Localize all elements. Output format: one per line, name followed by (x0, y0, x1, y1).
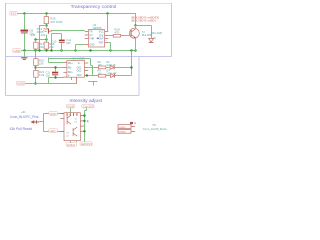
wire C8 top lead (24, 14, 26, 30)
wire top label B lead (85, 108, 87, 142)
node bus y120.9 (83, 120, 85, 122)
svg-text:1k5: 1k5 (97, 63, 102, 67)
svg-text:(BUL38D-E-xxBD): (BUL38D-E-xxBD) (131, 18, 156, 22)
label JP2 conn (143, 127, 167, 131)
label R17 value top (31, 33, 36, 37)
svg-text:V-: V- (68, 76, 70, 78)
label R18 value top (41, 33, 46, 37)
node x35 y67.5 (34, 66, 36, 68)
wire ground rail (21, 50, 136, 52)
wire output drop to middle (131, 51, 133, 68)
svg-text:Transparency control: Transparency control (71, 4, 117, 10)
svg-text:Conn_BLK/PC_Pins: Conn_BLK/PC_Pins (10, 115, 39, 119)
Q1 right pins (80, 116, 84, 132)
resistor R21 (34, 70, 38, 77)
wire R16 bottom lead (46, 24, 48, 26)
wire Q1 bottom lead B (76, 141, 78, 143)
node gnd x39 (38, 49, 40, 51)
wire DIS to R19 (108, 35, 113, 37)
supply label 3V3 (10, 11, 17, 15)
resistor R17 (34, 42, 38, 49)
node x35 y83.5 (34, 82, 36, 84)
wire IN2 link (49, 78, 64, 84)
node x35.5 y39.5 (34, 38, 36, 40)
diode D2 (110, 66, 114, 70)
svg-text:GND: GND (67, 104, 75, 108)
label C10 name (52, 39, 57, 43)
svg-text:D1: D1 (75, 121, 77, 123)
wire loop left drop (49, 58, 64, 63)
diode D4 (111, 73, 117, 78)
wire loop top (49, 58, 91, 60)
resistor R16 (44, 17, 48, 24)
svg-text:IN1+: IN1+ (68, 63, 74, 65)
IC1 bottom pins (72, 77, 77, 83)
wire junction to opamp IN (36, 67, 64, 69)
label C8 (29, 29, 34, 36)
svg-text:BUL38D: BUL38D (142, 33, 152, 37)
wire R9 to D4 (106, 75, 111, 77)
svg-text:470: 470 (114, 31, 119, 35)
title Transparency control (71, 4, 117, 10)
node x46 y25.5 (45, 24, 47, 26)
svg-text:VCC: VCC (99, 32, 104, 34)
red attribute text line2 (131, 18, 156, 22)
node x86.9 y75.5 (86, 74, 88, 76)
wire R18 bottom lead (46, 49, 48, 51)
wire under IC link (88, 82, 97, 86)
Q1 inner marks (67, 115, 77, 136)
node bus y131.3 (83, 130, 85, 132)
svg-text:IN2+: IN2+ (68, 72, 74, 74)
blue net text pull res (10, 127, 32, 131)
label T2 (142, 30, 152, 37)
connector JP2 (118, 122, 135, 133)
wire C10 bottom lead (61, 43, 63, 51)
svg-text:DIS: DIS (99, 36, 103, 38)
IC U2 left pins (85, 32, 89, 45)
frame middle section (6, 57, 140, 96)
svg-text:NE555: NE555 (93, 26, 102, 30)
node x55 y77.5b (54, 76, 56, 78)
wire Q1 bottom lead A (70, 141, 72, 143)
label PC1 (37, 27, 44, 34)
node x131 y67.5 (130, 66, 132, 68)
resistor R19 (113, 34, 120, 37)
wire GND label to Q box (58, 113, 65, 115)
svg-text:1k5: 1k5 (97, 71, 102, 75)
node rail x107 (106, 12, 108, 14)
svg-text:GND: GND (50, 112, 58, 116)
node gnd x75 (74, 49, 76, 51)
label R19 (114, 28, 120, 35)
wire riser to GND label (44, 113, 49, 115)
resistor R18 (44, 42, 48, 49)
svg-text:TR: TR (89, 32, 92, 34)
capacitor C11 (52, 72, 58, 76)
wire D4 to riser (115, 75, 132, 77)
svg-text:RST: RST (99, 43, 104, 45)
node bus y115.6 (83, 114, 85, 116)
svg-text:Intensity adjust: Intensity adjust (69, 98, 102, 104)
node gnd x24 (23, 49, 25, 51)
node rail x24 (23, 12, 25, 14)
label JP2 pin texts (119, 127, 126, 134)
svg-text:C10: C10 (52, 39, 57, 43)
red attribute text line1 (131, 15, 159, 19)
svg-text:22k: 22k (39, 61, 44, 65)
svg-text:GND: GND (89, 45, 94, 47)
wire OUT2 to R9 (87, 75, 99, 77)
label JP2 7W (152, 124, 156, 127)
wire R20 bottom lead (35, 66, 37, 71)
teal label JD (21, 110, 26, 114)
Q1 top pin marks (67, 113, 78, 116)
label C11 (46, 70, 51, 77)
capacitor C10 (59, 40, 65, 43)
blue crossref OUT (104, 38, 107, 42)
wire junction to diode drop (136, 26, 152, 39)
ground symbol (21, 51, 27, 60)
capacitor C8 (21, 30, 29, 34)
label R21 (39, 70, 45, 77)
IC U2 555 box (88, 30, 104, 47)
supply label bottom A (66, 143, 76, 147)
IC1 LM358 box (67, 60, 85, 77)
wire VCC riser (107, 14, 109, 32)
svg-text:470 0.5W: 470 0.5W (50, 20, 63, 24)
svg-text:BR.LAMP: BR.LAMP (151, 32, 162, 35)
svg-text:PWM2: PWM2 (119, 132, 126, 134)
label U2 (93, 23, 102, 30)
supply label GND left (13, 49, 21, 53)
supply label top A (66, 104, 74, 108)
label R17 (39, 42, 45, 49)
svg-text:63V: 63V (66, 41, 71, 45)
transistor module Q1 box (64, 113, 80, 141)
supply label GND middle (16, 81, 24, 85)
svg-text:G2: G2 (66, 132, 69, 134)
svg-text:Con3V3: Con3V3 (83, 104, 94, 108)
svg-text:IC1 LM358: IC1 LM358 (72, 57, 85, 61)
wire diode-or riser (131, 68, 133, 76)
label R8 (97, 60, 102, 67)
wire arrow to riser (39, 121, 43, 123)
svg-text:CV: CV (89, 35, 93, 37)
wire R21 bottom lead (35, 77, 37, 83)
node gnd x90 (89, 49, 91, 51)
svg-text:OU3: OU3 (77, 75, 82, 77)
svg-text:GND: GND (17, 82, 25, 86)
wire top label A lead (70, 108, 72, 113)
wire LED label to Q box (57, 131, 64, 133)
wire C11 bottom lead (55, 75, 57, 77)
label R20 (39, 58, 45, 65)
svg-text:⊼: ⊼ (87, 120, 89, 124)
label R18 (49, 42, 55, 49)
svg-text:Conn_10x05_Mode: Conn_10x05_Mode (143, 127, 167, 131)
Q1 inner teal labels (66, 118, 77, 137)
svg-text:D2: D2 (66, 135, 68, 137)
label D3 (151, 32, 162, 40)
svg-text:G1: G1 (75, 118, 78, 120)
wire OUT1 to R8 (88, 67, 98, 69)
svg-text:22k: 22k (39, 45, 44, 49)
wire R17 top lead (35, 40, 37, 43)
node x51 gnd (50, 49, 52, 51)
title Intensity adjust (69, 98, 102, 104)
frame top section (6, 3, 172, 96)
label C10 value (66, 38, 72, 45)
wire R16 top lead (46, 14, 48, 17)
IC U2 pin names (89, 32, 104, 47)
wire C8 bottom lead (24, 33, 26, 51)
wire T2 emitter to rail (135, 38, 137, 51)
wire 555 gnd path (76, 45, 85, 52)
label R16 (50, 17, 63, 24)
label R9 (97, 68, 102, 75)
svg-text:N: N (134, 121, 136, 125)
node x55 y67.5 (54, 66, 56, 68)
svg-text:IN1-: IN1- (68, 67, 73, 69)
svg-text:GND: GND (14, 49, 22, 53)
svg-text:LED: LED (50, 129, 57, 133)
label D4 (106, 68, 116, 75)
wire R17 bottom lead (35, 49, 37, 51)
resistor R8 (98, 66, 105, 69)
wire middle gnd feed (25, 83, 77, 85)
svg-text:LED3V3: LED3V3 (81, 142, 93, 146)
svg-text:OU1: OU1 (77, 67, 82, 69)
IC U2 right pins (105, 32, 109, 43)
wire D2 to riser (114, 67, 131, 69)
svg-text:1N4148: 1N4148 (106, 63, 116, 67)
svg-text:22k: 22k (41, 33, 46, 37)
wire loop right staircase (91, 59, 93, 76)
supply label LED bottom (49, 129, 58, 133)
wire R8 to D2 (106, 67, 110, 69)
wire riser to LED label (44, 131, 49, 133)
wire junction left drop (39, 26, 47, 52)
svg-text:THR: THR (89, 39, 94, 41)
wire opto emitter to 555 (53, 30, 85, 32)
label D2 (106, 60, 116, 67)
label IC1 (72, 57, 85, 61)
wire C10 dogleg (52, 34, 62, 52)
blue crossref right of Q1 (87, 120, 89, 124)
blue net text Conn (10, 115, 39, 119)
node x46.5 y39.5 (45, 38, 47, 40)
wire T2 collector lead (135, 26, 137, 29)
node gnd x61 (60, 49, 62, 51)
node gnd x131 (130, 49, 132, 51)
node rail x46 (45, 12, 47, 14)
node x135 y25.5 (134, 24, 136, 26)
svg-text:43k Pull Resist: 43k Pull Resist (10, 127, 32, 131)
supply label GND bottom (49, 112, 58, 116)
node gnd x135 (134, 49, 136, 51)
svg-text:→: → (104, 38, 107, 42)
wire rail corner down (135, 14, 137, 26)
blue speck in 555 (97, 38, 99, 39)
IC1 pin names (68, 63, 82, 78)
svg-text:«JD: «JD (21, 110, 26, 114)
resistor R9 (98, 74, 105, 77)
wire RST to ground (108, 43, 110, 52)
svg-text:22k: 22k (31, 33, 36, 37)
wire opto emitter down (46, 35, 48, 42)
svg-text:3V3: 3V3 (11, 12, 17, 16)
offpage arrow (31, 120, 40, 124)
svg-text:1N4148: 1N4148 (106, 71, 116, 75)
svg-text:[4]: [4] (153, 37, 156, 40)
svg-text:10u: 10u (46, 73, 51, 77)
node gnd x110 (109, 49, 111, 51)
blue text at JP2 (134, 121, 136, 125)
wire riser vertical (43, 114, 45, 132)
supply label bottom B (80, 142, 92, 146)
resistor R20 (34, 59, 38, 66)
Q1 left pins (60, 114, 64, 132)
svg-text:PWM1: PWM1 (119, 127, 126, 129)
optocoupler PC1 phototransistor (43, 26, 52, 34)
diode D3 (149, 38, 154, 42)
node gnd x35 (34, 49, 36, 51)
wire C11 top lead (55, 68, 57, 72)
wire 3V3 rail (17, 13, 136, 15)
IC1 left pins (63, 63, 67, 78)
supply label top B (82, 104, 94, 108)
svg-text:GND1: GND1 (67, 143, 76, 147)
wire divider link (36, 39, 47, 41)
node gnd x46 (45, 49, 47, 51)
svg-text:OU2: OU2 (77, 70, 82, 72)
wire R20 top lead (35, 51, 37, 59)
IC1 right pins (85, 63, 89, 76)
transistor T2 (129, 28, 139, 38)
svg-text:6.2k: 6.2k (39, 73, 45, 77)
wire R19 to T2 base (121, 35, 130, 37)
